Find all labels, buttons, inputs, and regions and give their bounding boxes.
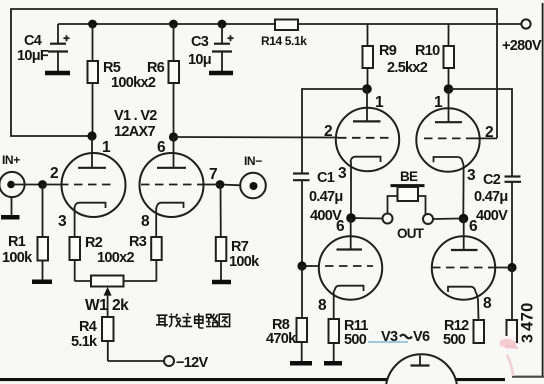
svg-text:R2: R2	[85, 235, 103, 251]
svg-text:R4: R4	[79, 319, 97, 335]
ground (C3)	[209, 71, 233, 76]
svg-text:R7: R7	[231, 239, 249, 255]
svg-text:C4: C4	[24, 33, 42, 49]
tube V3 anode	[353, 89, 381, 121]
svg-text:OUT: OUT	[397, 226, 425, 241]
terminal -12V	[164, 355, 208, 371]
svg-text:IN+: IN+	[2, 153, 20, 167]
node: R10/V4 plate junction (pin 1)	[434, 84, 453, 111]
svg-text:R9: R9	[379, 43, 397, 59]
svg-text:3: 3	[520, 334, 537, 343]
tube V5 envelope	[319, 236, 382, 299]
label R14 5.1k	[261, 34, 307, 48]
svg-text:470: 470	[519, 302, 537, 331]
svg-text:3: 3	[338, 165, 347, 182]
svg-text:2: 2	[50, 165, 58, 182]
capacitor C3	[188, 24, 234, 71]
tube V2 envelope	[140, 153, 204, 217]
svg-text:+280V: +280V	[502, 38, 542, 54]
tube V3 envelope	[336, 108, 399, 171]
wire: V2 plate to V3 grid	[174, 136, 339, 139]
tube V6 anode	[451, 219, 478, 251]
node: rail-R5 junction	[88, 20, 97, 29]
svg-text:2.5kx2: 2.5kx2	[387, 60, 428, 76]
tube V2 cathode	[141, 203, 184, 237]
wire: IN+ to grid V1	[11, 184, 43, 186]
tube V5 cathode	[318, 286, 364, 319]
svg-text:IN−: IN−	[244, 154, 262, 168]
tube V1 envelope	[62, 153, 126, 217]
tube V3 cathode	[338, 157, 381, 218]
svg-text:R6: R6	[147, 60, 165, 76]
wire: plate node to C1	[302, 89, 367, 173]
tube V7 envelope (partial, cut by page edge)	[386, 354, 457, 384]
ground (C4)	[45, 71, 70, 76]
tube V6 envelope	[432, 236, 495, 299]
svg-text:100x2: 100x2	[97, 250, 134, 266]
wire: plate node to C2	[449, 89, 513, 176]
tube V6 cathode	[448, 287, 492, 320]
resistor R2	[70, 235, 135, 281]
tube V3 grid (dashed)	[324, 123, 390, 140]
svg-text:V1 . V2: V1 . V2	[114, 108, 157, 124]
node: V1 plate junction (pin 1)	[87, 131, 111, 156]
svg-text:8: 8	[483, 295, 492, 312]
resistor R3	[129, 234, 162, 281]
label: title 耳放主电路图 (hand-drawn strokes)	[156, 313, 230, 328]
wire: V3 cathode node to OUT	[351, 217, 383, 220]
svg-text:2k: 2k	[112, 297, 129, 314]
svg-text:12AX7: 12AX7	[114, 124, 155, 140]
node: V6 plate junction (pin 6)	[459, 214, 478, 235]
tube V4 grid (dashed)	[424, 124, 497, 141]
wire: +280V supply rail	[58, 23, 522, 25]
ground (IN+ jack)	[1, 197, 20, 217]
svg-text:C3: C3	[191, 34, 209, 50]
resistor R14	[275, 20, 298, 31]
node: rail-R6 junction	[169, 20, 178, 29]
wire: V4 cathode node to OUT	[433, 218, 459, 221]
label R13 value (rotated)	[519, 302, 537, 343]
resistor R9	[363, 24, 428, 89]
label V1.V2 12AX7	[114, 108, 157, 140]
terminal IN+	[0, 153, 25, 197]
svg-text:470k: 470k	[266, 331, 297, 347]
svg-text:C1: C1	[317, 170, 335, 186]
tube V6 grid (dashed)	[432, 267, 512, 269]
tube V2 grid (dashed)	[141, 184, 220, 186]
resistor R13	[507, 268, 518, 343]
svg-text:10μF: 10μF	[17, 48, 49, 64]
resistor R6	[147, 24, 179, 137]
correction-fluid blotch (pink)	[498, 336, 518, 376]
resistor R5	[88, 24, 156, 136]
node: rail-C3 junction	[218, 20, 227, 29]
svg-text:R3: R3	[129, 234, 147, 250]
capacitor C4	[17, 24, 70, 71]
svg-text:R14 5.1k: R14 5.1k	[261, 34, 307, 48]
ground (R1)	[32, 279, 52, 284]
tube V7 anode	[411, 356, 430, 366]
capacitor C2	[474, 172, 521, 268]
node: pin7 junction	[209, 166, 224, 189]
capacitor C1	[293, 170, 343, 266]
svg-text:−12V: −12V	[176, 355, 208, 371]
ground (R11)	[324, 361, 342, 366]
svg-text:100k: 100k	[229, 254, 260, 270]
svg-text:BE: BE	[400, 169, 418, 184]
wire: blue underline mark	[368, 341, 408, 343]
tube V1 grid (dashed)	[43, 184, 117, 186]
terminal IN-	[240, 154, 266, 198]
svg-text:1: 1	[102, 139, 111, 156]
terminal OUT right contact	[397, 214, 433, 241]
svg-text:6: 6	[336, 218, 345, 235]
svg-text:0.47μ: 0.47μ	[474, 189, 508, 205]
wire: bottom scan edge line	[0, 376, 544, 382]
svg-text:2: 2	[324, 123, 332, 140]
resistor R11	[329, 318, 369, 361]
svg-text:W1: W1	[85, 297, 108, 314]
terminal OUT left contact	[383, 214, 393, 224]
svg-text:8: 8	[141, 213, 150, 230]
resistor R12	[443, 318, 484, 348]
node: V5 plate junction (pin 6)	[336, 213, 356, 235]
node: pin2 junction	[38, 165, 58, 189]
node: R9/V3 plate junction (pin 1)	[362, 84, 384, 111]
node: V6 grid junction	[507, 263, 516, 272]
svg-text:R10: R10	[415, 43, 440, 59]
resistor R7	[216, 185, 260, 281]
svg-text:5.1k: 5.1k	[71, 334, 98, 350]
label V3~V6	[381, 329, 430, 345]
svg-text:400V: 400V	[476, 208, 508, 224]
svg-text:3: 3	[467, 167, 476, 184]
svg-text:V6: V6	[413, 329, 430, 345]
svg-text:3: 3	[58, 213, 67, 230]
svg-text:0.47μ: 0.47μ	[309, 189, 343, 205]
wire: pin7 to IN-	[220, 184, 241, 187]
ground (R7)	[212, 280, 231, 285]
tube V2 anode	[157, 137, 186, 168]
svg-text:R1: R1	[8, 234, 26, 250]
node: V5 grid junction	[297, 261, 306, 270]
resistor R4	[71, 317, 114, 361]
tube V4 envelope	[416, 108, 479, 171]
resistor R8	[266, 266, 307, 361]
svg-text:R5: R5	[103, 60, 121, 76]
ground (R8)	[290, 361, 312, 366]
tube V1 anode	[78, 136, 106, 168]
terminal +280V	[502, 19, 542, 54]
svg-text:7: 7	[209, 166, 217, 183]
svg-text:100k: 100k	[2, 250, 33, 266]
tube V4 cathode	[434, 157, 477, 218]
svg-text:6: 6	[469, 218, 478, 235]
svg-text:10μ: 10μ	[188, 52, 211, 68]
svg-text:500: 500	[344, 332, 367, 348]
svg-text:2: 2	[485, 124, 493, 141]
pushbutton BE	[388, 169, 426, 214]
tube V4 anode	[435, 89, 462, 122]
tube V5 grid (dashed)	[302, 265, 373, 267]
svg-text:500: 500	[443, 332, 466, 348]
tube V5 anode	[337, 218, 363, 250]
svg-text:8: 8	[318, 297, 327, 314]
wire: R4 to -12V	[108, 360, 165, 362]
wire: top border from V4 grid to V1 plate	[11, 9, 497, 138]
resistor R1	[2, 185, 48, 281]
svg-text:100kx2: 100kx2	[111, 75, 156, 91]
wire: right sheet edge line	[542, 3, 544, 376]
tube V1 cathode	[58, 203, 106, 237]
svg-text:C2: C2	[483, 172, 501, 188]
resistor R10	[415, 24, 454, 89]
node: V2 plate junction (pin 6)	[157, 132, 178, 156]
potentiometer W1	[75, 276, 157, 318]
